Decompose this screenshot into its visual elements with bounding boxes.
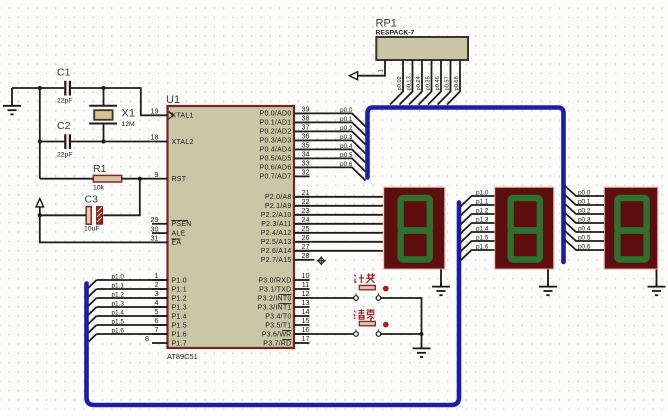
- svg-text:10: 10: [302, 271, 310, 280]
- svg-text:8: 8: [145, 334, 149, 343]
- pin 34 P0.5/AD5 stub: [294, 157, 310, 159]
- svg-text:5: 5: [155, 307, 159, 316]
- svg-text:P1.0: P1.0: [172, 277, 187, 284]
- svg-text:10uF: 10uF: [84, 226, 100, 233]
- overline INT0: [279, 294, 292, 296]
- push-button QL (clear): [354, 321, 381, 336]
- wire p0.1 tap to DS3: [565, 195, 605, 206]
- pin 10 P3.0/RXD stub: [294, 279, 310, 281]
- actuator dot JS: [383, 286, 388, 291]
- wire p0.4 tap to DS3: [565, 222, 605, 233]
- svg-text:27: 27: [302, 242, 310, 251]
- overline EA: [172, 238, 181, 240]
- wire net p0.6 chip to bus: [294, 167, 366, 180]
- svg-text:10k: 10k: [93, 185, 105, 192]
- svg-text:P3.7/RD: P3.7/RD: [263, 340, 291, 347]
- svg-text:39: 39: [302, 105, 310, 114]
- wire net p0.1 chip to bus: [294, 122, 366, 135]
- svg-text:P0.5/AD5: P0.5/AD5: [260, 156, 292, 163]
- svg-text:p0.1: p0.1: [578, 198, 591, 205]
- pin 3 RP1: [400, 60, 413, 105]
- svg-text:30: 30: [151, 224, 159, 233]
- 7-segment display DS2: [495, 187, 555, 269]
- pin 5 P1.4 stub: [152, 315, 168, 317]
- wire top net: gnd to C1: [12, 87, 64, 89]
- svg-text:P0.0/AD0: P0.0/AD0: [260, 111, 292, 118]
- ground DS1: [432, 283, 450, 295]
- pin 17 P3.7/RD stub: [294, 342, 310, 344]
- bus: RP1 to displays (top): [368, 108, 564, 263]
- pin 31 EA stub: [152, 241, 168, 243]
- label JiShu (count): [354, 273, 375, 283]
- svg-text:RP1: RP1: [376, 18, 397, 30]
- power terminal arrow (left): [349, 72, 357, 80]
- pin 9 RST stub: [152, 178, 168, 180]
- svg-text:p1.5: p1.5: [476, 234, 489, 241]
- svg-text:p1.6: p1.6: [112, 327, 125, 334]
- junction button ground rail: [420, 332, 424, 336]
- capacitor C3: [86, 207, 102, 225]
- svg-text:P2.0/A8: P2.0/A8: [265, 194, 292, 201]
- bus: P1 to display 2 (bottom): [87, 203, 460, 406]
- svg-text:EA: EA: [172, 240, 182, 247]
- wire p1.4 bus tap: [88, 316, 97, 324]
- wire net p0.5 chip to bus: [294, 158, 366, 171]
- junction crystal bottom: [102, 140, 106, 144]
- svg-text:p1.0: p1.0: [476, 189, 489, 196]
- wire net p1.3 wire: [97, 306, 168, 308]
- svg-text:p1.6: p1.6: [476, 243, 489, 250]
- svg-text:P1.5: P1.5: [172, 322, 187, 329]
- svg-text:p1.1: p1.1: [112, 282, 125, 289]
- svg-text:p0.24: p0.24: [416, 76, 422, 90]
- svg-text:p0.5: p0.5: [578, 234, 591, 241]
- pin 4 RP1: [409, 60, 422, 105]
- svg-text:P2.4/A12: P2.4/A12: [261, 230, 292, 237]
- svg-text:P2.5/A13: P2.5/A13: [261, 239, 292, 246]
- svg-text:17: 17: [302, 334, 310, 343]
- svg-text:p0.2: p0.2: [340, 125, 353, 132]
- pin 32 P0.7/AD7 stub: [294, 175, 310, 177]
- svg-text:34: 34: [302, 150, 310, 159]
- actuator dot QL: [383, 322, 388, 327]
- svg-text:p0.46: p0.46: [435, 76, 441, 90]
- wire net P2.6 chip to display DS1: [294, 250, 384, 252]
- pin 29 PSEN stub: [152, 223, 168, 225]
- svg-text:22: 22: [302, 197, 310, 206]
- wire EA net to pin 31: [40, 215, 152, 242]
- wire net P2.2 chip to display DS1: [294, 214, 384, 216]
- wire net p0.4 chip to bus: [294, 149, 366, 162]
- svg-text:35: 35: [302, 141, 310, 150]
- svg-text:ALE: ALE: [172, 230, 186, 237]
- ground buttons: [413, 345, 431, 357]
- pin 7 P1.6 stub: [152, 333, 168, 335]
- svg-text:P0.3/AD3: P0.3/AD3: [260, 138, 292, 145]
- wire button JS to ground rail: [381, 298, 422, 334]
- svg-text:P2.1/A9: P2.1/A9: [265, 203, 292, 210]
- pin 3 P1.2 stub: [152, 297, 168, 299]
- svg-text:p0.3: p0.3: [340, 134, 353, 141]
- svg-text:p1.3: p1.3: [476, 216, 489, 223]
- svg-text:P1.1: P1.1: [172, 286, 187, 293]
- pin 5 RP1: [419, 60, 432, 105]
- svg-text:X1: X1: [122, 108, 135, 120]
- svg-text:16: 16: [302, 325, 310, 334]
- svg-text:p1.5: p1.5: [112, 318, 125, 325]
- wire p0.6 tap to DS3: [565, 240, 605, 251]
- pin 1 P1.0 stub: [152, 279, 168, 281]
- svg-text:6: 6: [155, 316, 159, 325]
- svg-text:23: 23: [302, 206, 310, 215]
- svg-text:29: 29: [151, 215, 159, 224]
- pin 2 RP1: [390, 60, 403, 105]
- svg-text:22pF: 22pF: [57, 98, 73, 105]
- pin 4 P1.3 stub: [152, 306, 168, 308]
- wire crystal top: [103, 88, 105, 106]
- svg-text:P2.3/A11: P2.3/A11: [261, 221, 291, 228]
- pin 27 P2.6/A14 stub: [294, 250, 310, 252]
- svg-text:P2.2/A10: P2.2/A10: [261, 212, 292, 219]
- wire C2 to XTAL2 pin 18: [71, 141, 152, 143]
- wire p1.0 bus tap: [88, 280, 97, 288]
- wire left rail vertical: [39, 88, 41, 179]
- wire p0.5 tap to DS3: [565, 231, 605, 242]
- pin 28 P2.7/A15 stub: [294, 259, 310, 261]
- wire R1 net left: [40, 178, 94, 180]
- pin 12 P3.2/INT0 stub: [294, 297, 310, 299]
- wire p1.6 tap to DS2: [461, 250, 495, 261]
- wire net p1.1 wire: [97, 288, 168, 290]
- wire net p0.3 chip to bus: [294, 140, 366, 153]
- svg-text:P1.3: P1.3: [172, 304, 187, 311]
- svg-text:31: 31: [151, 234, 159, 243]
- svg-text:R1: R1: [93, 163, 107, 175]
- wire net INT0: chip pin12 to button JS: [294, 297, 354, 299]
- pin 39 P0.0/AD0 stub: [294, 112, 310, 114]
- svg-text:15: 15: [302, 316, 310, 325]
- power terminal arrow (up): [36, 199, 44, 216]
- wire net P2.1 chip to display DS1: [294, 205, 384, 207]
- svg-text:P1.6: P1.6: [172, 331, 187, 338]
- svg-text:P0.7/AD7: P0.7/AD7: [260, 174, 292, 181]
- svg-text:p1.3: p1.3: [112, 300, 125, 307]
- svg-text:12M: 12M: [122, 121, 136, 128]
- svg-text:22pF: 22pF: [57, 152, 73, 159]
- svg-text:P1.7: P1.7: [172, 340, 187, 347]
- label QingLing (clear): [354, 309, 375, 321]
- svg-text:P3.0/RXD: P3.0/RXD: [258, 277, 291, 284]
- wire net p0.2 chip to bus: [294, 131, 366, 144]
- pin 8 P1.7 stub: [152, 342, 168, 344]
- junction C3/power/EA: [38, 213, 42, 217]
- pin 37 P0.2/AD2 stub: [294, 130, 310, 132]
- svg-text:P3.5/T1: P3.5/T1: [265, 322, 291, 329]
- ground DS3: [648, 283, 666, 295]
- wire p1.5 bus tap: [88, 325, 97, 333]
- svg-text:p0.6: p0.6: [340, 161, 353, 168]
- svg-text:p1.2: p1.2: [112, 291, 125, 298]
- svg-text:2: 2: [155, 280, 159, 289]
- wire net P2.3 chip to display DS1: [294, 223, 384, 225]
- wire net WR: chip pin16 to button QL: [294, 333, 354, 335]
- resistor pack RP1 body: [376, 37, 468, 60]
- junction rail/top net: [38, 86, 42, 90]
- wire p1.5 tap to DS2: [461, 241, 495, 252]
- svg-text:p1.2: p1.2: [476, 207, 489, 214]
- 7-segment display DS1: [384, 187, 446, 269]
- svg-text:P0.1/AD1: P0.1/AD1: [260, 120, 292, 127]
- svg-text:P3.4/T0: P3.4/T0: [265, 313, 291, 320]
- wire net p1.4 wire: [97, 315, 168, 317]
- svg-text:p0.5: p0.5: [340, 152, 353, 159]
- svg-text:14: 14: [302, 307, 310, 316]
- svg-text:21: 21: [302, 188, 310, 197]
- svg-text:33: 33: [302, 159, 310, 168]
- svg-text:P2.6/A14: P2.6/A14: [261, 248, 292, 255]
- svg-text:C2: C2: [57, 120, 71, 132]
- wire p1.3 tap to DS2: [461, 223, 495, 234]
- pin 33 P0.6/AD6 stub: [294, 166, 310, 168]
- svg-text:9: 9: [155, 170, 159, 179]
- wire DS1 to ground: [440, 269, 442, 286]
- svg-text:18: 18: [151, 133, 159, 142]
- svg-text:P3.2/INT0: P3.2/INT0: [258, 295, 292, 302]
- pin 36 P0.3/AD3 stub: [294, 139, 310, 141]
- svg-text:3: 3: [155, 289, 159, 298]
- wire net p0.0 chip to bus: [294, 113, 366, 126]
- svg-text:p0.3: p0.3: [578, 216, 591, 223]
- svg-text:36: 36: [302, 132, 310, 141]
- svg-text:25: 25: [302, 224, 310, 233]
- wire DS3 to ground: [656, 269, 658, 286]
- ground DS2: [539, 283, 557, 295]
- wire net p1.5 wire: [97, 324, 168, 326]
- pin 24 P2.3/A11 stub: [294, 223, 310, 225]
- svg-text:11: 11: [302, 280, 309, 289]
- svg-text:RST: RST: [172, 176, 187, 183]
- pin 14 P3.4/T0 stub: [294, 315, 310, 317]
- svg-text:p0.1: p0.1: [340, 116, 353, 123]
- wire DS2 to ground: [547, 269, 549, 286]
- pin 21 P2.0/A8 stub: [294, 196, 310, 198]
- capacitor C1: [65, 81, 70, 96]
- svg-text:19: 19: [151, 107, 159, 116]
- pin 6 RP1: [428, 60, 441, 105]
- svg-text:U1: U1: [166, 94, 180, 106]
- wire p0.0 tap to DS3: [565, 186, 605, 197]
- svg-text:P3.1/TXD: P3.1/TXD: [259, 286, 291, 293]
- wire net P2.5 chip to display DS1: [294, 241, 384, 243]
- svg-text:P1.2: P1.2: [172, 295, 187, 302]
- wire net p1.2 wire: [97, 297, 168, 299]
- svg-text:p1.1: p1.1: [476, 198, 489, 205]
- svg-text:PSEN: PSEN: [172, 221, 192, 228]
- svg-text:7: 7: [155, 325, 159, 334]
- resistor R1: [93, 175, 121, 182]
- pin 19 XTAL1 stub: [152, 114, 168, 116]
- pin 13 P3.3/INT1 stub: [294, 306, 310, 308]
- svg-text:26: 26: [302, 233, 310, 242]
- wire net P2.0 chip to display DS1: [294, 196, 384, 198]
- pin 8 RP1: [447, 60, 460, 105]
- svg-text:38: 38: [302, 114, 310, 123]
- svg-text:32: 32: [302, 168, 310, 177]
- svg-text:p1.0: p1.0: [112, 273, 125, 280]
- junction C2/rail: [38, 140, 42, 144]
- svg-text:P0.2/AD2: P0.2/AD2: [260, 129, 292, 136]
- pin 35 P0.4/AD4 stub: [294, 148, 310, 150]
- svg-text:p0.6: p0.6: [578, 243, 591, 250]
- wire p1.0 tap to DS2: [461, 196, 495, 207]
- svg-text:P1.4: P1.4: [172, 313, 187, 320]
- wire p1.2 tap to DS2: [461, 214, 495, 225]
- wire crystal bottom: [103, 124, 105, 142]
- svg-text:28: 28: [302, 251, 310, 260]
- overline PSEN: [172, 219, 189, 221]
- svg-text:P3.3/INT1: P3.3/INT1: [258, 304, 292, 311]
- 7-segment display DS3: [604, 187, 658, 269]
- svg-text:4: 4: [155, 298, 159, 307]
- wire p1.6 bus tap: [88, 334, 97, 342]
- svg-text:p0.68: p0.68: [454, 76, 460, 90]
- overline INT1: [279, 303, 292, 305]
- svg-text:p0.0: p0.0: [578, 189, 591, 196]
- wire p0.2 tap to DS3: [565, 204, 605, 215]
- wire button QL to ground rail: [381, 333, 422, 335]
- svg-text:P2.7/A15: P2.7/A15: [261, 257, 292, 264]
- pin 1 RP1: [358, 60, 385, 76]
- svg-text:p0.4: p0.4: [578, 225, 591, 232]
- pin 22 P2.1/A9 stub: [294, 205, 310, 207]
- wire net p1.6 wire: [97, 333, 168, 335]
- svg-text:p0.2: p0.2: [578, 207, 591, 214]
- overline WR: [282, 330, 292, 332]
- wire p1.1 tap to DS2: [461, 205, 495, 216]
- junction crystal top: [102, 86, 106, 90]
- svg-text:12: 12: [302, 289, 310, 298]
- pin 11 P3.1/TXD stub: [294, 288, 310, 290]
- crystal X1: [89, 106, 117, 124]
- svg-text:AT89C51: AT89C51: [167, 352, 198, 361]
- clock input marker XTAL1: [169, 112, 174, 119]
- wire R1 to RST pin 9: [122, 178, 152, 180]
- wire C2 net left: [40, 141, 65, 143]
- push-button JS (count): [354, 285, 381, 300]
- wire p1.2 bus tap: [88, 298, 97, 306]
- svg-text:P3.6/WR: P3.6/WR: [262, 331, 292, 338]
- wire net p1.0 wire: [97, 279, 168, 281]
- svg-text:P0.6/AD6: P0.6/AD6: [260, 165, 292, 172]
- pin 26 P2.5/A13 stub: [294, 241, 310, 243]
- svg-text:1: 1: [155, 271, 159, 280]
- pin 16 P3.6/WR stub: [294, 333, 310, 335]
- pin 18 XTAL2 stub: [152, 141, 168, 143]
- wire RST branch down to C3: [103, 179, 140, 216]
- svg-text:p1.4: p1.4: [476, 225, 489, 232]
- svg-text:p0.4: p0.4: [340, 143, 353, 150]
- wire p1.1 bus tap: [88, 289, 97, 297]
- svg-text:C3: C3: [85, 194, 99, 206]
- pin 7 RP1: [438, 60, 451, 105]
- no-connect marker pin 28: [294, 259, 315, 261]
- pin 25 P2.4/A12 stub: [294, 232, 310, 234]
- pin 23 P2.2/A10 stub: [294, 214, 310, 216]
- pin 6 P1.5 stub: [152, 324, 168, 326]
- svg-text:p0.13: p0.13: [407, 76, 413, 90]
- capacitor C2: [65, 134, 70, 149]
- wire ground rail drop: [421, 334, 423, 348]
- wire p1.3 bus tap: [88, 307, 97, 315]
- svg-text:RESPACK-7: RESPACK-7: [376, 30, 415, 37]
- svg-text:p0.57: p0.57: [445, 76, 451, 90]
- svg-text:P0.4/AD4: P0.4/AD4: [260, 147, 292, 154]
- svg-text:XTAL1: XTAL1: [172, 113, 194, 120]
- pin 38 P0.1/AD1 stub: [294, 121, 310, 123]
- pin 2 P1.1 stub: [152, 288, 168, 290]
- svg-text:XTAL2: XTAL2: [172, 139, 194, 146]
- ground GND top-left: [3, 88, 21, 114]
- svg-text:24: 24: [302, 215, 310, 224]
- wire top net: C1 to XTAL1 pin 19: [71, 88, 152, 115]
- junction RST branch: [138, 177, 142, 181]
- svg-text:p0.0: p0.0: [340, 107, 353, 114]
- svg-text:p0.02: p0.02: [397, 76, 403, 90]
- svg-text:13: 13: [302, 298, 310, 307]
- wire C3 left to junction: [40, 214, 86, 216]
- overline RD: [282, 339, 291, 341]
- svg-text:p0.35: p0.35: [426, 76, 432, 90]
- wire p1.4 tap to DS2: [461, 232, 495, 243]
- svg-text:37: 37: [302, 123, 310, 132]
- pin 30 ALE stub: [152, 232, 168, 234]
- svg-text:p1.4: p1.4: [112, 309, 125, 316]
- svg-text:C1: C1: [57, 67, 71, 79]
- wire p0.3 tap to DS3: [565, 213, 605, 224]
- pin 15 P3.5/T1 stub: [294, 324, 310, 326]
- op-amp U1 body (AT89C51 MCU): [168, 106, 295, 348]
- wire net P2.4 chip to display DS1: [294, 232, 384, 234]
